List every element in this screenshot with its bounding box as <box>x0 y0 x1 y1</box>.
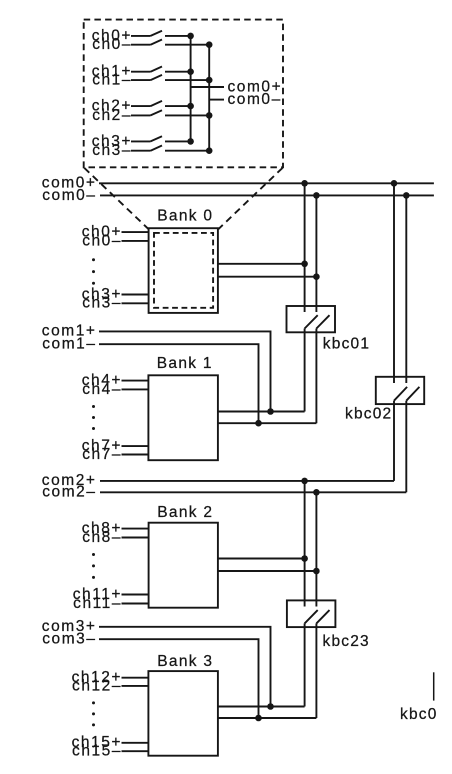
pin ch0+ (Bank 0) <box>82 224 149 241</box>
pin ch4+ (Bank 1) <box>82 372 149 389</box>
switch kbc02 <box>345 377 424 423</box>
projection dashed line left <box>84 168 148 229</box>
Bank 3 <box>148 653 218 755</box>
switch kbc03 label (partially cut) <box>400 706 438 723</box>
wire com2- to kbc23 pole B <box>315 492 317 606</box>
svg-text:ch1–: ch1– <box>92 72 132 89</box>
ellipsis (Bank 3 channels) <box>92 701 95 726</box>
wire Bank 3 output + <box>218 706 305 708</box>
wire kbc01 pole B to Bank 1 output - <box>315 329 317 424</box>
ellipsis (Bank 0 channels) <box>92 258 95 285</box>
pin ch15+ (Bank 3) <box>72 734 149 751</box>
svg-text:com3–: com3– <box>42 630 96 647</box>
svg-text:ch3–: ch3– <box>92 142 132 159</box>
pin ch0- (Bank 0) <box>82 232 148 249</box>
switch ch3- <box>92 142 209 159</box>
net com1- <box>42 335 262 426</box>
wire Bank 3 output - <box>218 717 317 719</box>
ellipsis (Bank 1 channels) <box>92 405 95 430</box>
svg-text:ch2–: ch2– <box>92 107 132 124</box>
pin ch8- (Bank 2) <box>82 529 148 546</box>
pin ch12- (Bank 3) <box>72 677 148 694</box>
detail box (magnified Bank 0 switch matrix) dashed outline <box>84 20 283 168</box>
pin ch3- (Bank 0) <box>82 295 148 312</box>
switch kbc01 <box>287 306 371 352</box>
pin ch11+ (Bank 2) <box>73 586 149 603</box>
svg-text:kbc23: kbc23 <box>323 633 370 650</box>
Bank 0 <box>149 208 218 313</box>
projection dashed line right <box>218 168 282 229</box>
wire Bank 2 output - <box>218 568 320 575</box>
wire kbc02 pole A to com2+ <box>393 401 395 481</box>
Bank 2 <box>149 504 218 608</box>
svg-text:ch12–: ch12– <box>72 677 122 694</box>
wire kbc02 pole B to com2- <box>405 401 407 493</box>
net com2- <box>42 484 406 501</box>
svg-text:ch0–: ch0– <box>92 36 132 53</box>
svg-text:ch15–: ch15– <box>72 743 122 760</box>
svg-text:com2–: com2– <box>42 484 96 501</box>
svg-text:Bank 0: Bank 0 <box>157 208 213 225</box>
net com1+ <box>42 323 274 415</box>
switch ch3+ <box>92 133 191 150</box>
net com0+ rail <box>42 175 434 192</box>
switch ch1- <box>92 72 209 89</box>
svg-text:kbc02: kbc02 <box>345 406 392 423</box>
com0+ bus (left vertical, detail box) <box>190 36 192 141</box>
svg-text:Bank 2: Bank 2 <box>157 504 213 521</box>
wire com0- to kbc01 pole B <box>315 195 317 312</box>
wire Bank 0 output - <box>218 273 320 280</box>
switch ch1+ <box>92 63 191 80</box>
wire kbc01 pole A to Bank 1 output + <box>304 329 306 412</box>
switch ch2+ <box>92 98 191 115</box>
svg-text:ch4–: ch4– <box>82 381 122 398</box>
wire kbc23 pole B to Bank 3 output - <box>315 623 317 718</box>
ellipsis (Bank 2 channels) <box>92 553 95 579</box>
com0- bus (right vertical, detail box) <box>208 45 210 151</box>
node com0+ stub (detail box) <box>191 78 283 95</box>
svg-text:ch11–: ch11– <box>73 595 122 612</box>
switch ch0+ <box>92 27 191 44</box>
net com3- <box>42 630 262 721</box>
pin ch8+ (Bank 2) <box>82 520 149 537</box>
svg-text:ch0–: ch0– <box>82 232 122 249</box>
wire kbc23 pole A to Bank 3 output + <box>304 623 306 706</box>
pin ch7+ (Bank 1) <box>82 438 149 455</box>
svg-text:Bank 1: Bank 1 <box>157 355 213 372</box>
svg-text:ch8–: ch8– <box>82 529 122 546</box>
svg-text:com0–: com0– <box>228 91 282 108</box>
Bank 1 <box>148 355 218 460</box>
wire com0- to kbc02 pole B <box>405 195 407 383</box>
wire Bank 1 output - <box>218 422 317 424</box>
wire com0+ to kbc02 pole A <box>393 183 395 383</box>
wire com2+ to kbc23 pole A <box>304 481 306 607</box>
net com2+ <box>42 472 394 489</box>
svg-text:ch7–: ch7– <box>82 446 122 463</box>
node com0- stub (detail box) <box>209 91 282 108</box>
svg-text:kbc0: kbc0 <box>400 706 438 723</box>
wire Bank 1 output + <box>218 411 305 413</box>
net com3+ <box>42 618 274 710</box>
pin ch3+ (Bank 0) <box>82 286 149 303</box>
switch ch2- <box>92 107 209 124</box>
svg-text:com0–: com0– <box>42 187 96 204</box>
svg-text:com1–: com1– <box>42 335 96 352</box>
svg-text:ch3–: ch3– <box>82 295 122 312</box>
wire Bank 2 output + <box>218 555 308 562</box>
wire com0+ to kbc01 pole A <box>304 183 306 312</box>
switch kbc23 <box>287 600 370 650</box>
svg-text:Bank 3: Bank 3 <box>157 653 213 670</box>
pin ch15- (Bank 3) <box>72 743 148 760</box>
wire kbc03 stub (cut off at right edge) <box>433 672 435 700</box>
junction dots on com0 rails <box>301 180 409 199</box>
net com0- rail <box>42 187 434 204</box>
pin ch11- (Bank 2) <box>73 595 148 612</box>
wire Bank 0 output + <box>218 261 308 268</box>
pin ch7- (Bank 1) <box>82 446 148 463</box>
svg-text:kbc01: kbc01 <box>323 335 370 352</box>
switch ch0- <box>92 36 209 53</box>
pin ch12+ (Bank 3) <box>72 669 149 686</box>
pin ch4- (Bank 1) <box>82 381 148 398</box>
junction dots on detail buses <box>187 33 212 154</box>
